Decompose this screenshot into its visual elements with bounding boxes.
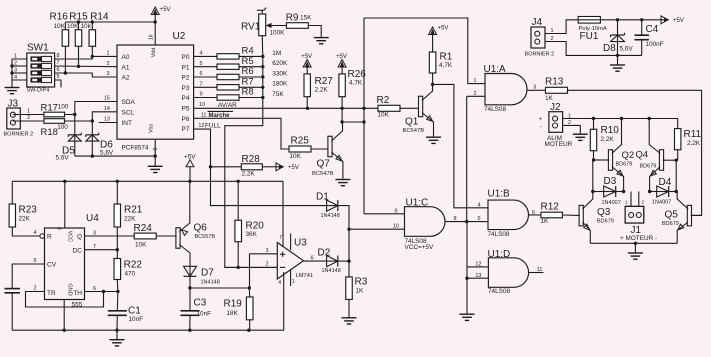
svg-text:+5V: +5V	[301, 54, 312, 60]
svg-text:18K: 18K	[227, 310, 239, 317]
svg-text:TH: TH	[73, 290, 82, 297]
svg-text:5: 5	[56, 74, 59, 80]
svg-text:4: 4	[278, 280, 281, 286]
svg-text:SW1: SW1	[27, 43, 49, 54]
svg-text:8: 8	[153, 148, 159, 151]
svg-text:P3: P3	[182, 85, 190, 92]
svg-text:R10: R10	[601, 125, 620, 136]
svg-text:BC547B: BC547B	[312, 171, 334, 177]
svg-text:D8: D8	[603, 43, 616, 54]
svg-text:5,6V: 5,6V	[620, 46, 634, 53]
svg-text:SCL: SCL	[122, 109, 135, 116]
svg-text:10K: 10K	[135, 241, 147, 248]
svg-text:16: 16	[149, 34, 155, 40]
svg-text:5,6V: 5,6V	[100, 150, 114, 157]
svg-text:+ MOTEUR -: + MOTEUR -	[620, 235, 657, 242]
svg-text:2,2K: 2,2K	[601, 136, 615, 143]
svg-text:-: -	[540, 124, 542, 130]
svg-text:75K: 75K	[272, 91, 284, 98]
svg-text:+5V: +5V	[673, 18, 684, 24]
svg-text:11: 11	[201, 112, 207, 118]
svg-text:D4: D4	[659, 177, 672, 188]
svg-text:Q4: Q4	[636, 150, 649, 161]
svg-text:14: 14	[104, 106, 110, 112]
svg-text:10K: 10K	[378, 112, 390, 119]
svg-text:BD679: BD679	[597, 219, 614, 225]
svg-text:620K: 620K	[272, 60, 288, 67]
svg-text:6: 6	[56, 67, 59, 73]
svg-text:2: 2	[473, 91, 476, 97]
svg-text:2: 2	[106, 61, 109, 67]
svg-text:R12: R12	[541, 202, 560, 213]
svg-text:4: 4	[14, 75, 17, 81]
svg-text:3: 3	[533, 85, 536, 91]
svg-text:3: 3	[14, 68, 17, 74]
svg-text:Q: Q	[77, 234, 82, 241]
svg-text:3: 3	[265, 248, 268, 254]
svg-text:P2: P2	[182, 75, 190, 82]
svg-text:180K: 180K	[272, 81, 288, 88]
svg-text:+5V: +5V	[336, 54, 347, 60]
svg-text:R9: R9	[286, 13, 299, 24]
svg-text:R3: R3	[355, 277, 368, 288]
svg-text:P5: P5	[182, 106, 190, 113]
svg-text:R11: R11	[684, 129, 702, 140]
svg-text:100: 100	[57, 124, 68, 131]
svg-text:74LS08: 74LS08	[488, 288, 510, 295]
svg-text:R8: R8	[242, 87, 254, 98]
svg-text:GND: GND	[66, 284, 72, 296]
svg-text:1N4007: 1N4007	[602, 200, 621, 206]
svg-text:4: 4	[33, 230, 36, 236]
svg-text:5,6V: 5,6V	[56, 154, 70, 161]
svg-text:1K: 1K	[545, 95, 554, 102]
svg-text:10nF: 10nF	[129, 316, 144, 323]
svg-text:P7: P7	[182, 126, 190, 133]
svg-text:1: 1	[106, 51, 109, 57]
svg-text:1K: 1K	[541, 218, 550, 225]
svg-text:J4: J4	[532, 17, 543, 28]
svg-text:1: 1	[473, 78, 476, 84]
svg-text:+5V: +5V	[160, 7, 171, 13]
svg-text:9: 9	[394, 208, 397, 214]
svg-text:BD679: BD679	[640, 163, 657, 169]
svg-text:AV/AR: AV/AR	[218, 102, 237, 109]
svg-text:U1:D: U1:D	[488, 249, 511, 260]
svg-text:Q2: Q2	[622, 150, 635, 161]
svg-text:U1:B: U1:B	[488, 189, 511, 200]
svg-text:10: 10	[393, 224, 399, 230]
svg-text:BD679: BD679	[662, 221, 679, 227]
svg-text:Q6: Q6	[194, 223, 208, 234]
svg-text:10: 10	[199, 102, 205, 108]
svg-text:VCC=+5V: VCC=+5V	[405, 244, 435, 251]
svg-text:U3: U3	[294, 237, 307, 248]
svg-text:5: 5	[33, 258, 36, 264]
svg-text:15: 15	[104, 96, 110, 102]
svg-text:R1: R1	[440, 52, 453, 63]
svg-text:C3: C3	[194, 298, 207, 309]
svg-text:R18: R18	[41, 127, 58, 138]
svg-text:10k: 10k	[81, 23, 92, 30]
svg-text:1N4148: 1N4148	[321, 213, 340, 219]
svg-text:100nF: 100nF	[646, 41, 664, 48]
svg-text:R16: R16	[50, 12, 69, 23]
svg-text:4: 4	[477, 202, 480, 208]
svg-text:6: 6	[310, 255, 313, 261]
svg-text:Q7: Q7	[317, 159, 331, 170]
svg-text:P0: P0	[182, 54, 190, 61]
svg-text:1: 1	[14, 54, 17, 60]
svg-text:R25: R25	[291, 136, 310, 147]
svg-text:10K: 10K	[290, 153, 302, 160]
svg-text:C4: C4	[646, 24, 659, 35]
svg-text:D3: D3	[604, 176, 617, 187]
svg-text:FULL: FULL	[205, 122, 221, 129]
svg-text:R15: R15	[69, 12, 88, 23]
svg-text:BORNIER 2: BORNIER 2	[525, 52, 555, 58]
svg-text:22K: 22K	[19, 216, 31, 223]
svg-text:4,7K: 4,7K	[349, 80, 363, 87]
svg-text:A1: A1	[122, 64, 130, 71]
svg-text:BD679: BD679	[616, 161, 633, 167]
svg-text:Vss: Vss	[149, 124, 155, 133]
svg-text:13: 13	[475, 273, 481, 279]
svg-text:R21: R21	[124, 205, 143, 216]
svg-text:1N4007: 1N4007	[652, 200, 671, 206]
svg-text:15K: 15K	[300, 15, 312, 22]
svg-text:2,2K: 2,2K	[242, 171, 256, 178]
svg-text:1N4148: 1N4148	[322, 268, 341, 274]
svg-text:7: 7	[56, 60, 59, 66]
svg-text:22K: 22K	[124, 216, 136, 223]
svg-text:R27: R27	[315, 76, 334, 87]
svg-text:1N4148: 1N4148	[201, 280, 220, 286]
svg-text:100: 100	[58, 104, 69, 111]
svg-text:R22: R22	[124, 260, 143, 271]
svg-text:10nF: 10nF	[197, 311, 212, 318]
svg-text:P1: P1	[182, 64, 190, 71]
svg-text:P6: P6	[182, 116, 190, 123]
svg-text:5: 5	[199, 61, 202, 67]
svg-text:D2: D2	[318, 248, 331, 259]
svg-text:6: 6	[532, 210, 535, 216]
svg-text:MOTEUR: MOTEUR	[545, 141, 573, 148]
svg-text:CV: CV	[47, 262, 57, 269]
svg-text:1M: 1M	[272, 50, 281, 57]
svg-text:2: 2	[27, 115, 30, 121]
svg-text:FU1: FU1	[580, 31, 599, 42]
svg-text:R14: R14	[90, 12, 109, 23]
svg-text:R20: R20	[246, 221, 265, 232]
svg-text:R24: R24	[134, 223, 153, 234]
svg-text:DC: DC	[73, 247, 83, 254]
svg-text:A0: A0	[122, 54, 130, 61]
svg-text:12: 12	[198, 123, 204, 129]
svg-text:D1: D1	[316, 192, 329, 203]
svg-text:470: 470	[125, 270, 136, 277]
svg-text:BORNIER 2: BORNIER 2	[4, 132, 34, 138]
svg-text:PCF8574: PCF8574	[122, 145, 149, 152]
svg-text:1: 1	[550, 28, 553, 34]
svg-text:2: 2	[33, 286, 36, 292]
svg-text:Marche: Marche	[209, 113, 231, 119]
svg-text:Vdd: Vdd	[151, 48, 157, 58]
svg-text:R28: R28	[242, 154, 261, 165]
svg-text:3: 3	[106, 71, 109, 77]
svg-text:U2: U2	[173, 31, 186, 42]
svg-text:12: 12	[475, 261, 481, 267]
svg-text:7: 7	[279, 235, 282, 241]
svg-text:D7: D7	[201, 268, 214, 279]
svg-text:+: +	[539, 117, 542, 123]
svg-text:U1:C: U1:C	[406, 198, 429, 209]
svg-text:2: 2	[265, 262, 268, 268]
svg-text:1K: 1K	[356, 287, 365, 294]
svg-text:BC557B: BC557B	[195, 234, 216, 240]
svg-text:+5V: +5V	[288, 165, 299, 171]
svg-text:330K: 330K	[272, 70, 288, 77]
svg-text:74LS08: 74LS08	[484, 106, 506, 113]
svg-text:74LS08: 74LS08	[488, 231, 510, 238]
svg-text:6: 6	[199, 71, 202, 77]
svg-text:8: 8	[56, 53, 59, 59]
svg-text:SW-DIP4: SW-DIP4	[27, 88, 50, 94]
svg-text:Q5: Q5	[665, 210, 679, 221]
svg-text:R13: R13	[545, 77, 564, 88]
svg-text:7: 7	[199, 82, 202, 88]
svg-text:BC547B: BC547B	[403, 128, 425, 134]
svg-text:R2: R2	[377, 95, 390, 106]
svg-text:2,2K: 2,2K	[687, 140, 701, 147]
svg-text:R: R	[47, 234, 52, 241]
svg-text:INT: INT	[122, 120, 133, 127]
svg-text:100K: 100K	[270, 30, 286, 37]
svg-text:P4: P4	[182, 95, 190, 102]
svg-text:2: 2	[14, 61, 17, 67]
svg-text:R19: R19	[224, 299, 243, 310]
svg-text:1: 1	[292, 279, 295, 285]
svg-text:36K: 36K	[246, 231, 258, 238]
svg-text:8: 8	[58, 227, 64, 230]
svg-text:7: 7	[93, 244, 96, 250]
svg-text:U1:A: U1:A	[484, 64, 507, 75]
svg-text:1: 1	[27, 109, 30, 115]
svg-text:9: 9	[199, 92, 202, 98]
svg-text:13: 13	[104, 117, 110, 123]
svg-text:VCC: VCC	[66, 231, 72, 243]
svg-text:4: 4	[199, 51, 202, 57]
svg-text:RV1: RV1	[241, 22, 261, 33]
svg-text:U4: U4	[86, 213, 99, 224]
svg-text:Q3: Q3	[597, 207, 611, 218]
svg-text:11: 11	[537, 267, 543, 273]
svg-text:10K: 10K	[67, 23, 79, 30]
svg-text:SDA: SDA	[122, 99, 136, 106]
svg-text:TR: TR	[47, 290, 56, 297]
svg-text:2: 2	[550, 36, 553, 42]
svg-text:R23: R23	[19, 205, 38, 216]
svg-text:A2: A2	[122, 75, 130, 82]
svg-text:LM741: LM741	[296, 273, 314, 279]
svg-text:10K: 10K	[54, 23, 66, 30]
svg-text:2,2K: 2,2K	[315, 87, 329, 94]
svg-text:Q1: Q1	[405, 117, 419, 128]
svg-text:+5V: +5V	[438, 26, 449, 32]
svg-text:4,7K: 4,7K	[439, 62, 453, 69]
